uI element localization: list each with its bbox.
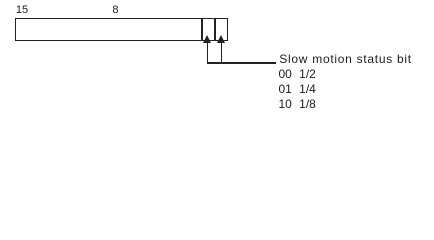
value row 00 1/2 — [279, 68, 316, 80]
bit label 15 — [16, 4, 28, 16]
label: Slow motion status bit — [279, 53, 412, 65]
cell divider bit0 — [214, 18, 215, 41]
value row 10 1/8 — [279, 98, 316, 110]
bit label 8 — [112, 4, 118, 16]
arrow stem bit0 — [221, 43, 222, 63]
register box — [15, 18, 227, 41]
pointer line to label — [207, 62, 276, 63]
arrowhead bit0 — [217, 35, 225, 43]
value row 01 1/4 — [279, 83, 316, 95]
cell divider bit1 — [201, 18, 202, 41]
arrowhead bit1 — [203, 35, 211, 43]
arrow stem bit1 — [207, 43, 208, 63]
